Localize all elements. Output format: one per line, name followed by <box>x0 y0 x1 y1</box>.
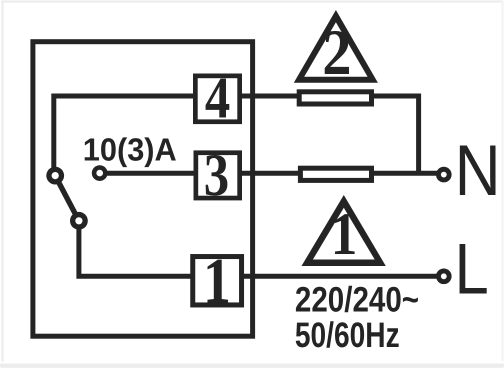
wire: from switch lower contact down and right to terminal 1 <box>79 224 195 276</box>
switch contact (common, top) <box>46 167 64 185</box>
N terminal circle <box>436 167 452 183</box>
svg-text:50/60Hz: 50/60Hz <box>295 315 400 355</box>
svg-text:2: 2 <box>322 17 351 89</box>
triangle 2 numeral <box>322 17 351 89</box>
svg-text:4: 4 <box>205 65 230 131</box>
wire: terminal 4 out through load R2 then down to N rail <box>240 96 419 173</box>
terminal 3 box <box>196 153 240 198</box>
terminal 4 label <box>205 65 230 131</box>
wire: terminal 3 out through load R3 to N terminal <box>240 171 444 176</box>
supply frequency label <box>295 315 400 355</box>
rating label 10(3)A <box>83 132 177 168</box>
svg-text:3: 3 <box>204 142 229 209</box>
thermostat body outline <box>33 42 253 337</box>
load resistor R3 (load on terminal 3 / N line) <box>300 168 371 180</box>
switch lever (SPDT switch arm) <box>55 176 79 221</box>
svg-text:220/240~: 220/240~ <box>295 280 419 320</box>
switch contact (lower) <box>70 212 88 230</box>
load resistor R2 (heating load on terminal 4 line) <box>299 92 371 104</box>
warning triangle 2 <box>294 10 378 83</box>
svg-text:N: N <box>455 131 501 211</box>
warning triangle 1 <box>302 195 386 266</box>
L terminal circle <box>436 269 452 285</box>
svg-text:10(3)A: 10(3)A <box>83 132 177 168</box>
N label <box>455 131 501 211</box>
supply voltage label <box>295 280 419 320</box>
svg-text:1: 1 <box>203 246 231 318</box>
L label <box>455 230 489 310</box>
switch contact (terminal 3 pole) <box>92 165 108 181</box>
wire: switch pole contact to terminal 3 <box>100 171 198 176</box>
svg-text:1: 1 <box>331 201 358 268</box>
thermostat internal wiring group <box>33 42 444 337</box>
terminal 3 label <box>204 142 229 209</box>
terminal 1 label <box>203 246 231 318</box>
wire: internal riser to terminal 4 (from switch common contact up and right) <box>54 96 197 170</box>
terminal 4 box <box>195 76 239 122</box>
triangle 1 numeral <box>331 201 358 268</box>
terminal 1 box <box>193 257 242 305</box>
svg-text:L: L <box>455 230 489 310</box>
wire: terminal 1 out to L terminal <box>242 274 444 279</box>
